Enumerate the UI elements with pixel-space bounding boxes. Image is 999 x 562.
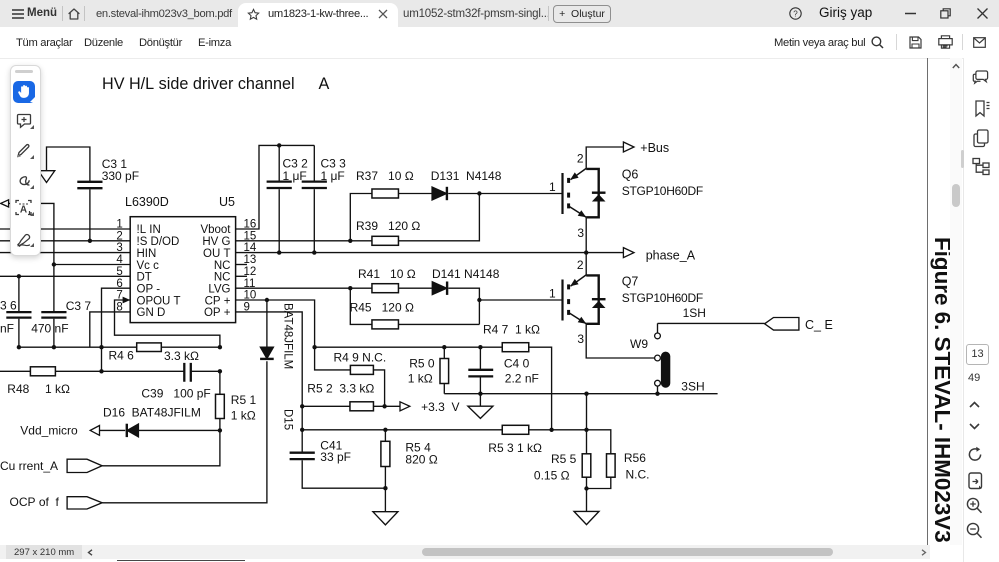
pin 13 NC stub (236, 264, 247, 266)
svg-text:C4 0: C4 0 (504, 357, 530, 371)
svg-text:D15: D15 (282, 409, 294, 430)
svg-text:R56: R56 (624, 451, 646, 465)
node phase_A (623, 248, 695, 263)
wire Q6 emitter to phase node (585, 217, 587, 252)
wire Q7 emitter to W9 (586, 324, 654, 358)
diode D13 1N4148 (431, 169, 502, 200)
wire Q7 collector to phase node (585, 253, 587, 275)
svg-text:R48: R48 (7, 382, 29, 396)
capacitor C37 (31, 265, 91, 348)
ground (R54) (373, 488, 398, 525)
wire D14 to Q7 gate (448, 288, 562, 324)
wire shunt ground line 3SH run (444, 392, 717, 396)
wire LVG net (236, 286, 353, 290)
svg-text:HIN: HIN (137, 248, 157, 260)
svg-text:D131 N4148: D131 N4148 (431, 169, 502, 183)
resistor R50 (408, 347, 449, 394)
capacitor C33 (302, 145, 346, 254)
capacitor C39 (141, 363, 222, 401)
svg-text:W9: W9 (630, 337, 648, 351)
svg-text:5: 5 (116, 266, 122, 278)
svg-text:6: 6 (116, 278, 122, 290)
svg-text:33 pF: 33 pF (320, 450, 351, 464)
svg-text:470 nF: 470 nF (31, 322, 68, 336)
transistor Q7 STGP10H60DF (549, 258, 703, 346)
svg-text:NC: NC (214, 272, 231, 284)
svg-text:1 kΩ: 1 kΩ (231, 409, 256, 423)
svg-text:820 Ω: 820 Ω (405, 453, 437, 467)
resistor R37 (356, 169, 414, 198)
svg-text:3.3 kΩ: 3.3 kΩ (164, 349, 199, 363)
resistor R48 (0, 367, 184, 396)
wire OPOUT pin7 with arrow (115, 297, 223, 350)
svg-text:C3 7: C3 7 (66, 299, 92, 313)
svg-text:STGP10H60DF: STGP10H60DF (622, 291, 703, 305)
svg-text:DT: DT (137, 272, 152, 284)
capacitor C41 (290, 439, 386, 489)
wire R37 to D13 (399, 193, 432, 195)
capacitor C31 (47, 147, 140, 241)
svg-text:8: 8 (116, 301, 122, 313)
svg-text:OP +: OP + (204, 307, 231, 319)
wire Vboot rail (236, 143, 315, 229)
svg-text:R39 120 Ω: R39 120 Ω (356, 219, 420, 233)
svg-text:4: 4 (116, 254, 123, 266)
svg-text:1 kΩ: 1 kΩ (408, 372, 433, 386)
wire Vcc net with left net arrow (1, 200, 131, 267)
wire OP+ net (236, 312, 305, 452)
wire !LIN pin1 line (0, 228, 130, 230)
svg-text:OP -: OP - (137, 283, 161, 295)
svg-text:1: 1 (549, 287, 556, 301)
svg-text:R45 120 Ω: R45 120 Ω (350, 301, 414, 315)
wire OP- pin6 (99, 288, 130, 373)
ground (R55) (574, 489, 599, 525)
wire CP+ net (236, 298, 351, 370)
svg-text:R5 1: R5 1 (231, 393, 257, 407)
svg-text:nF: nF (0, 322, 14, 336)
svg-text:3: 3 (116, 242, 122, 254)
svg-text:OU T: OU T (203, 248, 230, 260)
svg-text:R5 5: R5 5 (551, 452, 577, 466)
diode D14 1N4148 (432, 267, 500, 295)
wire D13 to Q6 gate (448, 191, 562, 195)
svg-text:STGP10H60DF: STGP10H60DF (622, 184, 703, 198)
wire R41 to D14 (399, 287, 433, 289)
node +3.3V (400, 400, 459, 414)
node Vdd_micro (20, 424, 99, 438)
svg-text:3SH: 3SH (681, 380, 704, 394)
svg-text:D141 N4148: D141 N4148 (432, 267, 500, 281)
wire GND pin8 (90, 312, 130, 347)
transistor Q6 STGP10H60DF (549, 152, 703, 241)
wire OCP_off to D15 (102, 361, 267, 503)
svg-text:Vboot: Vboot (200, 224, 231, 236)
svg-text:0.15 Ω: 0.15 Ω (534, 469, 570, 483)
pin numbers U5 (116, 219, 257, 314)
svg-text:NC: NC (214, 260, 231, 272)
wire R53 rail (302, 428, 611, 454)
capacitor C32 (267, 145, 309, 254)
svg-text:N.C.: N.C. (626, 468, 650, 482)
svg-text:R4 6: R4 6 (109, 349, 135, 363)
svg-text:1 kΩ: 1 kΩ (45, 382, 70, 396)
svg-text:3 6: 3 6 (0, 299, 17, 313)
wire !SD/OD pin2 line (0, 239, 130, 243)
svg-text:Cu rrent_A: Cu rrent_A (0, 459, 58, 473)
wire DT pin5 line (0, 274, 130, 278)
jumper W9 (630, 323, 670, 393)
svg-text:A: A (20, 204, 27, 215)
svg-text:1SH: 1SH (683, 306, 706, 320)
svg-text:R5 3 1 kΩ: R5 3 1 kΩ (488, 441, 542, 455)
resistor R55 0.15 ohm shunt (534, 394, 591, 491)
svg-text:7: 7 (116, 290, 122, 302)
svg-text:R5 2 3.3 kΩ: R5 2 3.3 kΩ (307, 382, 374, 396)
resistor R41 (350, 267, 415, 293)
node Current_A (0, 459, 102, 473)
svg-text:HV H/L side driver channel: HV H/L side driver channel (102, 75, 295, 93)
resistor R49 N.C. (334, 351, 387, 407)
svg-text:HV G: HV G (202, 236, 230, 248)
resistor R47 (483, 323, 540, 352)
wire 1SH (658, 306, 765, 323)
svg-text:2: 2 (577, 152, 584, 166)
capacitor C36 (0, 276, 32, 347)
svg-text:2: 2 (116, 230, 122, 242)
svg-text:OCP of f: OCP of f (10, 495, 60, 509)
svg-text:A: A (319, 75, 330, 93)
svg-text:R37 10 Ω: R37 10 Ω (356, 169, 414, 183)
resistor R39 (350, 194, 479, 246)
svg-text:!L IN: !L IN (137, 224, 161, 236)
wire Current_A to R51 (102, 430, 220, 465)
svg-text:GN D: GN D (137, 307, 166, 319)
svg-text:Vc c: Vc c (137, 260, 160, 272)
resistor R46 (109, 343, 200, 363)
svg-text:BAT48JFILM: BAT48JFILM (282, 303, 294, 369)
svg-text:2: 2 (577, 258, 584, 272)
svg-text:C39 100 pF: C39 100 pF (141, 387, 210, 401)
svg-text:OPOU T: OPOU T (137, 295, 181, 307)
svg-text:R4 9 N.C.: R4 9 N.C. (334, 351, 387, 365)
op-amp U5 L6390D gate driver IC (125, 195, 236, 323)
svg-text:3: 3 (577, 226, 584, 240)
pin 12 NC stub (236, 275, 247, 277)
connector C_E (765, 318, 833, 333)
capacitor C40 (468, 347, 539, 394)
svg-text:?: ? (793, 9, 798, 18)
diode D15 (260, 300, 293, 430)
svg-text:+3.3 V: +3.3 V (421, 400, 459, 414)
svg-text:D16 BAT48JFILM: D16 BAT48JFILM (103, 406, 201, 420)
node +Bus (623, 141, 669, 155)
svg-text:R4 7 1 kΩ: R4 7 1 kΩ (483, 323, 540, 337)
svg-text:3: 3 (577, 332, 584, 346)
svg-text:1 μF: 1 μF (321, 169, 345, 183)
resistor R45 (350, 288, 480, 329)
diode D16 (100, 406, 220, 438)
svg-text:+Bus: +Bus (640, 141, 669, 155)
svg-text:LVG: LVG (208, 283, 230, 295)
wire HIN pin3 line (0, 252, 130, 254)
resistor R53 (488, 425, 542, 455)
wire HVG net (236, 194, 373, 244)
wire +15V sense rail (315, 345, 552, 430)
resistor R51 (216, 371, 257, 432)
svg-text:Q7: Q7 (622, 275, 639, 289)
resistor R56 N.C. (587, 451, 650, 489)
node OCP_off (10, 495, 103, 509)
wire OUT / phase_A line (236, 250, 623, 254)
svg-text:2.2 nF: 2.2 nF (505, 372, 539, 386)
svg-text:330 pF: 330 pF (102, 169, 139, 183)
ground (C31) (38, 171, 55, 183)
wire ground rail (17, 345, 220, 349)
svg-text:Q6: Q6 (622, 168, 639, 182)
svg-text:phase_A: phase_A (646, 249, 696, 263)
svg-text:R5 0: R5 0 (409, 357, 435, 371)
svg-text:!S D/OD: !S D/OD (137, 236, 180, 248)
svg-text:1: 1 (116, 219, 122, 231)
svg-text:1: 1 (549, 180, 556, 194)
svg-text:Vdd_micro: Vdd_micro (20, 424, 78, 438)
resistor R52 (302, 382, 400, 411)
svg-text:U5: U5 (219, 195, 235, 209)
svg-text:CP +: CP + (205, 295, 231, 307)
wire Q6 collector to +Bus (586, 147, 623, 168)
ground (C40) (468, 394, 493, 419)
svg-text:C_ E: C_ E (805, 318, 833, 332)
svg-text:R41 10 Ω: R41 10 Ω (358, 267, 416, 281)
svg-text:L6390D: L6390D (125, 195, 169, 209)
resistor R54 (381, 430, 438, 491)
